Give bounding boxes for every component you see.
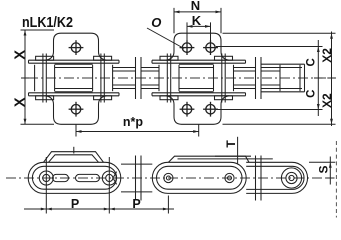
- svg-text:X: X: [12, 97, 28, 107]
- svg-text:X: X: [12, 50, 28, 60]
- svg-text:n*p: n*p: [123, 115, 144, 129]
- svg-text:K: K: [192, 13, 202, 28]
- svg-text:S: S: [317, 165, 331, 173]
- svg-text:C: C: [306, 58, 318, 66]
- svg-text:X2: X2: [320, 93, 334, 108]
- svg-text:P: P: [132, 197, 140, 211]
- svg-text:X2: X2: [320, 48, 334, 63]
- svg-text:T: T: [224, 140, 238, 148]
- svg-text:P: P: [71, 197, 79, 211]
- svg-text:nLK1/K2: nLK1/K2: [22, 15, 73, 31]
- svg-text:O: O: [151, 15, 161, 30]
- svg-text:N: N: [191, 0, 200, 13]
- svg-text:C: C: [306, 90, 318, 98]
